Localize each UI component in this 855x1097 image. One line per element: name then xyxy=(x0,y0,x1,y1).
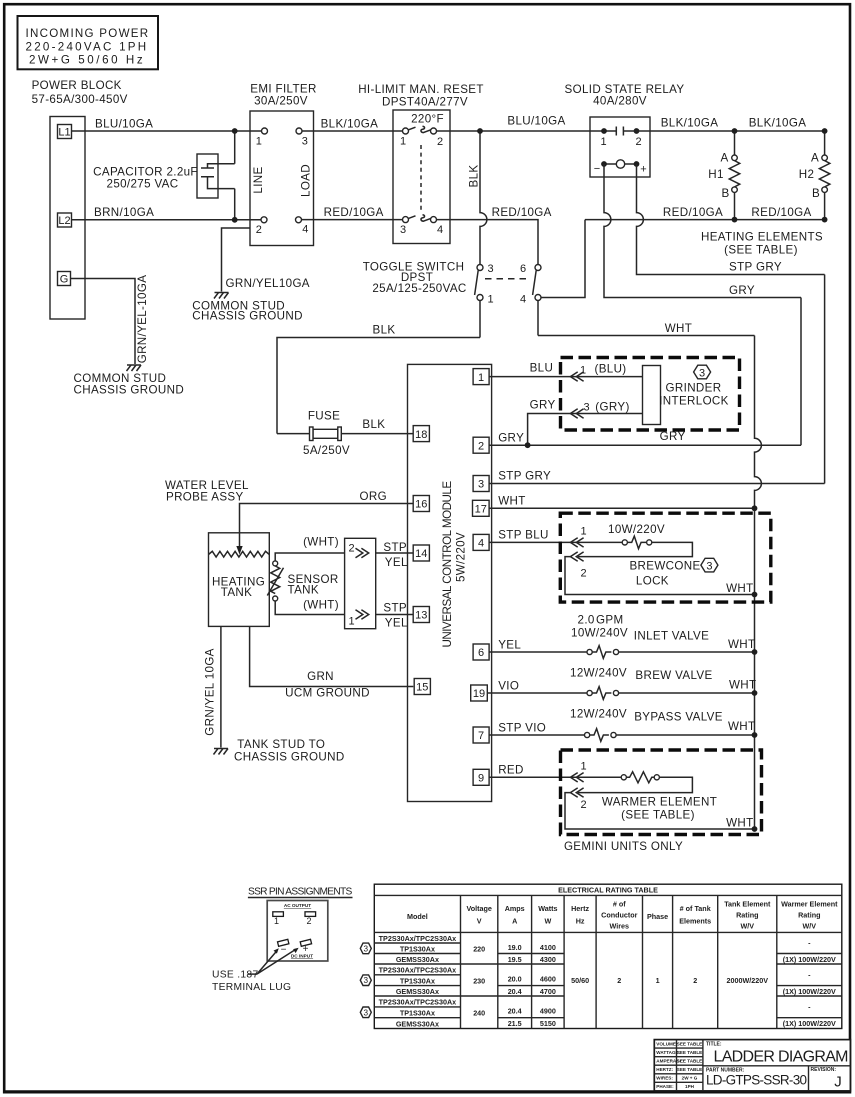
svg-text:GEMSS30Ax: GEMSS30Ax xyxy=(396,1019,439,1028)
svg-text:3: 3 xyxy=(583,402,589,414)
warmer element assembly xyxy=(561,750,762,835)
svg-text:3: 3 xyxy=(699,367,705,379)
UCM pin 3 xyxy=(473,476,489,492)
probe arrow into tank xyxy=(236,546,242,555)
toggle contact 4 xyxy=(535,295,541,301)
junction brewcone WHT bus xyxy=(752,592,758,598)
svg-text:# of Tank: # of Tank xyxy=(680,904,711,913)
svg-text:HI-LIMIT MAN. RESET: HI-LIMIT MAN. RESET xyxy=(358,83,484,96)
svg-text:240: 240 xyxy=(473,1009,485,1018)
terminal L1 xyxy=(58,125,72,139)
heating element H1 xyxy=(708,131,739,220)
svg-text:2: 2 xyxy=(693,976,697,985)
svg-text:(1X) 100W/220V: (1X) 100W/220V xyxy=(783,1019,836,1028)
wire RED hi-limit4 to toggle 6 xyxy=(437,206,552,265)
svg-text:2: 2 xyxy=(348,543,354,555)
svg-text:21.5: 21.5 xyxy=(508,1019,522,1028)
svg-text:1: 1 xyxy=(580,365,586,377)
SSR pin assignments box xyxy=(267,901,328,962)
svg-text:2: 2 xyxy=(580,568,586,580)
svg-text:PHASE:: PHASE: xyxy=(656,1084,674,1089)
svg-text:INCOMING POWER: INCOMING POWER xyxy=(26,27,149,40)
svg-text:BLU/10GA: BLU/10GA xyxy=(507,115,565,128)
svg-text:HERTZ:: HERTZ: xyxy=(656,1067,673,1072)
hexagon 3 table group 240 xyxy=(360,1007,371,1018)
svg-text:4: 4 xyxy=(520,294,526,306)
svg-text:19.5: 19.5 xyxy=(508,955,522,964)
svg-text:Amps: Amps xyxy=(505,904,525,913)
svg-text:WARMER ELEMENT: WARMER ELEMENT xyxy=(602,796,717,809)
svg-text:ORG: ORG xyxy=(360,490,387,503)
UCM pin 7 xyxy=(473,727,489,743)
svg-text:Warmer Element: Warmer Element xyxy=(781,900,838,909)
svg-text:VOLUME:: VOLUME: xyxy=(656,1042,678,1047)
junction grinder GRY xyxy=(525,442,531,448)
wire G to chassis ground xyxy=(71,279,136,365)
wire sensor to pin13 xyxy=(376,602,414,630)
wire RED EMI4 to hi-limit 3 xyxy=(302,206,406,220)
svg-text:1: 1 xyxy=(400,136,406,148)
svg-text:CHASSIS GROUND: CHASSIS GROUND xyxy=(192,310,303,323)
svg-text:250/275 VAC: 250/275 VAC xyxy=(107,178,179,191)
svg-text:W/V: W/V xyxy=(803,922,817,931)
svg-text:2.0 GPM: 2.0 GPM xyxy=(578,614,624,627)
hi-limit contact 2 xyxy=(431,128,437,134)
svg-text:(SEE TABLE): (SEE TABLE) xyxy=(724,244,798,257)
EMI pin 1 xyxy=(262,128,268,134)
svg-text:TITLE:: TITLE: xyxy=(706,1041,722,1047)
svg-text:WHT: WHT xyxy=(726,817,753,830)
svg-text:GRY: GRY xyxy=(498,432,524,445)
toggle switch S2 xyxy=(363,261,531,296)
svg-text:3: 3 xyxy=(302,136,308,148)
svg-text:Conductor: Conductor xyxy=(601,911,638,920)
svg-text:GRINDER: GRINDER xyxy=(666,382,722,395)
junction capacitor-BRN xyxy=(232,217,238,223)
svg-text:3: 3 xyxy=(400,224,406,236)
svg-text:(1X) 100W/220V: (1X) 100W/220V xyxy=(783,955,836,964)
wire tank stud to chassis ground xyxy=(220,626,222,747)
svg-text:6: 6 xyxy=(478,647,484,659)
hi-limit thermostat S1 xyxy=(358,83,484,244)
svg-text:BREW VALVE: BREW VALVE xyxy=(635,669,712,682)
hexagon 3 table group 220 xyxy=(360,943,371,954)
svg-text:2: 2 xyxy=(635,136,641,148)
wire pin7 STP VIO to bypass valve xyxy=(489,722,584,736)
svg-text:20.4: 20.4 xyxy=(508,1007,522,1016)
svg-text:A: A xyxy=(720,152,728,165)
svg-text:(WHT): (WHT) xyxy=(303,536,339,549)
svg-text:5A/250V: 5A/250V xyxy=(303,444,350,457)
svg-text:15: 15 xyxy=(416,682,428,694)
svg-text:BLK: BLK xyxy=(362,418,385,431)
wire BLU L1 to EMI pin1 xyxy=(72,118,265,132)
svg-text:1: 1 xyxy=(274,916,279,926)
grinder interlock assembly xyxy=(561,358,740,431)
terminal L2 xyxy=(58,213,72,227)
svg-text:USE .187: USE .187 xyxy=(212,970,258,981)
svg-text:SEE TABLE: SEE TABLE xyxy=(677,1042,702,1047)
wire EMI ground lead xyxy=(222,228,251,292)
svg-text:1: 1 xyxy=(478,372,484,384)
svg-text:REVISION:: REVISION: xyxy=(811,1067,837,1073)
bus STP GRY right xyxy=(824,275,826,484)
universal control module UCM xyxy=(408,364,492,801)
chassis ground symbol (EMI) xyxy=(214,293,229,299)
svg-text:2: 2 xyxy=(478,440,484,452)
svg-text:BLK/10GA: BLK/10GA xyxy=(661,117,719,130)
svg-text:7: 7 xyxy=(478,730,484,742)
EMI pin 2 xyxy=(261,217,267,223)
svg-text:10W/240V: 10W/240V xyxy=(571,627,628,640)
svg-text:H1: H1 xyxy=(708,168,724,181)
svg-text:HEATING ELEMENTS: HEATING ELEMENTS xyxy=(701,231,823,244)
svg-text:3: 3 xyxy=(706,560,712,572)
svg-text:INTERLOCK: INTERLOCK xyxy=(659,395,729,408)
svg-text:TANK STUD TO: TANK STUD TO xyxy=(237,738,325,751)
svg-text:GRY: GRY xyxy=(530,399,556,412)
svg-text:220: 220 xyxy=(473,945,485,954)
fuse F1 xyxy=(277,410,413,458)
SSR terminal dots xyxy=(601,128,607,134)
svg-text:3: 3 xyxy=(478,479,484,491)
svg-text:5150: 5150 xyxy=(540,1019,556,1028)
bus GRY right xyxy=(800,298,802,446)
svg-text:INLET VALVE: INLET VALVE xyxy=(634,630,709,643)
svg-text:GRN: GRN xyxy=(307,670,334,683)
svg-text:40A/280V: 40A/280V xyxy=(593,95,647,108)
svg-text:AC OUTPUT: AC OUTPUT xyxy=(284,903,311,908)
svg-text:GEMSS30Ax: GEMSS30Ax xyxy=(396,955,439,964)
bypass valve solenoid xyxy=(570,708,755,742)
svg-text:W: W xyxy=(545,917,552,926)
inlet valve solenoid xyxy=(571,614,755,659)
svg-text:30A/250V: 30A/250V xyxy=(254,95,308,108)
wire BLU hi-limit2 to SSR1 xyxy=(437,115,617,132)
svg-text:12W/240V: 12W/240V xyxy=(570,667,627,680)
svg-text:Tank Element: Tank Element xyxy=(724,900,771,909)
svg-text:5W/220V: 5W/220V xyxy=(455,532,468,582)
svg-text:1PH: 1PH xyxy=(685,1084,695,1089)
svg-text:3: 3 xyxy=(364,976,369,985)
svg-text:4900: 4900 xyxy=(540,1007,556,1016)
svg-text:A: A xyxy=(811,152,819,165)
svg-text:4100: 4100 xyxy=(540,943,556,952)
svg-text:GEMSS30Ax: GEMSS30Ax xyxy=(396,987,439,996)
svg-text:Rating: Rating xyxy=(736,911,758,920)
svg-text:TP1S30Ax: TP1S30Ax xyxy=(400,976,435,985)
junction warmer WHT bus xyxy=(752,826,758,832)
wire toggle1 down to BLK line xyxy=(479,301,481,338)
svg-text:Watts: Watts xyxy=(538,904,557,913)
svg-text:−: − xyxy=(594,163,600,175)
svg-text:BLU: BLU xyxy=(530,362,554,375)
svg-text:1: 1 xyxy=(656,976,660,985)
svg-text:J: J xyxy=(834,1073,842,1090)
toggle lever 6-4 xyxy=(533,270,537,295)
svg-text:FUSE: FUSE xyxy=(308,410,340,423)
svg-text:Hz: Hz xyxy=(576,917,585,926)
svg-text:CHASSIS GROUND: CHASSIS GROUND xyxy=(74,384,185,397)
toggle lever 3-1 xyxy=(475,270,479,295)
svg-text:WHT: WHT xyxy=(665,322,692,335)
brew valve solenoid xyxy=(570,667,756,700)
svg-text:20.0: 20.0 xyxy=(508,975,522,984)
svg-text:A: A xyxy=(512,917,517,926)
svg-text:(1X) 100W/220V: (1X) 100W/220V xyxy=(783,987,836,996)
SSR pin assignments heading xyxy=(248,887,353,898)
svg-text:VIO: VIO xyxy=(498,680,519,693)
svg-text:3: 3 xyxy=(364,1008,369,1017)
svg-text:2: 2 xyxy=(617,976,621,985)
svg-text:GRY: GRY xyxy=(729,284,755,297)
UCM pin 16 xyxy=(413,496,429,512)
svg-text:12W/240V: 12W/240V xyxy=(570,708,627,721)
wire pin9 RED to warmer element xyxy=(489,764,624,778)
hexagon 3 table group 230 xyxy=(360,975,371,986)
power block TB1 xyxy=(32,79,128,319)
svg-text:SSR PIN ASSIGNMENTS: SSR PIN ASSIGNMENTS xyxy=(248,887,353,898)
wire SSR plus to STP GRY (with hop) xyxy=(637,164,825,275)
wire BLK toggle1 to fuse xyxy=(277,324,480,434)
brewcone lock assembly xyxy=(560,513,771,602)
heating element H2 xyxy=(799,131,830,220)
svg-text:2: 2 xyxy=(306,916,311,926)
UCM pin 2 xyxy=(473,437,489,453)
svg-text:16: 16 xyxy=(415,499,427,511)
UCM pin 15 xyxy=(414,679,430,695)
svg-text:TANK: TANK xyxy=(221,586,252,599)
svg-text:2: 2 xyxy=(437,136,443,148)
svg-text:1: 1 xyxy=(600,136,606,148)
svg-text:STP GRY: STP GRY xyxy=(729,261,782,274)
wire toggle4 up to RED bus xyxy=(541,220,585,298)
svg-text:WHT: WHT xyxy=(726,582,753,595)
svg-text:TP1S30Ax: TP1S30Ax xyxy=(400,1009,435,1018)
wire toggle4 down to WHT line xyxy=(537,301,539,336)
label water level probe assy xyxy=(165,479,249,504)
label common stud chassis ground (left) xyxy=(74,372,185,397)
svg-text:220°F: 220°F xyxy=(411,113,444,126)
svg-text:V: V xyxy=(477,917,482,926)
svg-text:220-240VAC 1PH: 220-240VAC 1PH xyxy=(26,41,147,54)
svg-text:WHT: WHT xyxy=(728,720,755,733)
svg-text:(GRY): (GRY) xyxy=(595,401,629,414)
svg-text:BLK: BLK xyxy=(468,165,481,188)
svg-text:2: 2 xyxy=(580,799,586,811)
svg-text:19.0: 19.0 xyxy=(508,943,522,952)
svg-text:−: − xyxy=(281,945,287,956)
svg-text:1: 1 xyxy=(580,761,586,773)
svg-text:L1: L1 xyxy=(58,127,70,139)
svg-text:1: 1 xyxy=(580,526,586,538)
svg-text:POWER BLOCK: POWER BLOCK xyxy=(32,79,122,92)
svg-text:UCM GROUND: UCM GROUND xyxy=(285,687,370,700)
svg-text:19: 19 xyxy=(473,688,485,700)
EMI pin 3 xyxy=(296,128,302,134)
wire pin6 YEL to inlet valve xyxy=(489,639,587,653)
svg-text:STP GRY: STP GRY xyxy=(498,470,551,483)
svg-text:SEE TABLE: SEE TABLE xyxy=(677,1050,702,1055)
hexagon 3 grinder xyxy=(694,365,711,379)
svg-text:4600: 4600 xyxy=(540,975,556,984)
title block xyxy=(654,1040,850,1091)
wire BLK SSR2 to heating elements xyxy=(623,117,824,132)
svg-text:RED/10GA: RED/10GA xyxy=(324,206,384,219)
wire GRN UCM ground to pin15 xyxy=(250,626,414,699)
svg-text:BREWCONE: BREWCONE xyxy=(629,560,700,573)
svg-text:SEE TABLE: SEE TABLE xyxy=(677,1059,702,1064)
wire ORG probe to pin16 xyxy=(240,490,414,546)
svg-text:25A/125-250VAC: 25A/125-250VAC xyxy=(372,282,466,295)
svg-text:YEL: YEL xyxy=(385,556,408,569)
svg-text:14: 14 xyxy=(415,548,427,560)
wire pin19 VIO to brew valve xyxy=(487,680,587,694)
EMI pin 4 xyxy=(296,217,302,223)
svg-text:+: + xyxy=(640,164,646,176)
svg-text:LINE: LINE xyxy=(252,166,265,193)
svg-text:(BLU): (BLU) xyxy=(594,363,626,376)
svg-text:GRN/YEL 10GA: GRN/YEL 10GA xyxy=(204,648,217,736)
svg-text:1: 1 xyxy=(348,616,354,628)
junction brew WHT bus xyxy=(752,690,758,696)
junction bypass WHT bus xyxy=(752,732,758,738)
svg-text:TP1S30Ax: TP1S30Ax xyxy=(400,944,435,953)
svg-text:50/60: 50/60 xyxy=(571,976,589,985)
bus WHT right (with hops) xyxy=(755,336,762,830)
svg-text:13: 13 xyxy=(415,610,427,622)
UCM pin 6 xyxy=(473,644,489,660)
svg-text:Model: Model xyxy=(407,912,428,921)
UCM pin 1 xyxy=(473,369,489,385)
svg-text:TERMINAL LUG: TERMINAL LUG xyxy=(212,982,291,993)
junction BLU-BLK drop xyxy=(477,128,483,134)
wire BLK drop to toggle 3 (with hop) xyxy=(468,131,487,265)
svg-text:LD-GTPS-SSR-30: LD-GTPS-SSR-30 xyxy=(706,1072,807,1087)
svg-text:4: 4 xyxy=(302,224,308,236)
junction pin17 WHT bus xyxy=(752,505,758,511)
svg-text:2W + G: 2W + G xyxy=(682,1076,698,1081)
EMI filter xyxy=(250,83,317,246)
svg-text:1: 1 xyxy=(256,136,262,148)
svg-text:LADDER DIAGRAM: LADDER DIAGRAM xyxy=(714,1048,849,1065)
svg-text:(SEE TABLE): (SEE TABLE) xyxy=(621,809,695,822)
solid state relay SSR xyxy=(565,83,685,177)
svg-text:GRN/YEL-10GA: GRN/YEL-10GA xyxy=(136,275,149,364)
svg-text:57-65A/300-450V: 57-65A/300-450V xyxy=(32,93,128,106)
svg-text:GRY: GRY xyxy=(660,430,686,443)
svg-text:ELECTRICAL RATING TABLE: ELECTRICAL RATING TABLE xyxy=(558,886,658,895)
wire WHT to bus xyxy=(538,322,755,336)
tank sensor thermistor xyxy=(267,553,344,615)
svg-text:STP BLU: STP BLU xyxy=(498,529,549,542)
svg-text:BLK: BLK xyxy=(373,324,396,337)
svg-text:4: 4 xyxy=(437,224,443,236)
capacitor C1 xyxy=(93,131,235,220)
UCM pin 4 xyxy=(473,534,489,550)
svg-text:WIRES:: WIRES: xyxy=(656,1076,673,1081)
wire pin17 WHT to bus xyxy=(489,495,754,509)
svg-text:230: 230 xyxy=(473,977,485,986)
svg-text:L2: L2 xyxy=(58,215,70,227)
svg-text:G: G xyxy=(60,274,69,286)
svg-text:3: 3 xyxy=(364,944,369,953)
wire pin4 STP BLU to brewcone xyxy=(489,529,625,543)
svg-text:Elements: Elements xyxy=(679,917,711,926)
hi-limit contact 1 xyxy=(403,128,409,134)
label use .187 terminal lug xyxy=(212,970,291,994)
svg-text:4: 4 xyxy=(478,538,484,550)
UCM pin 17 xyxy=(473,500,490,516)
UCM pin 14 xyxy=(413,545,429,561)
hi-limit contact 3 xyxy=(403,217,409,223)
svg-text:Voltage: Voltage xyxy=(466,904,491,913)
wire BLK EMI3 to hi-limit 1 xyxy=(302,118,406,132)
toggle contact 1 xyxy=(477,295,483,301)
junction inlet WHT bus xyxy=(752,649,758,655)
wire sensor to pin14 xyxy=(376,541,414,569)
UCM pin 9 xyxy=(473,769,489,785)
svg-text:WHT: WHT xyxy=(729,679,756,692)
svg-text:TP2S30Ax/TPC2S30Ax: TP2S30Ax/TPC2S30Ax xyxy=(379,966,457,975)
junction capacitor-BLU xyxy=(232,128,238,134)
svg-text:WHT: WHT xyxy=(728,638,755,651)
svg-text:6: 6 xyxy=(520,263,526,275)
svg-text:4300: 4300 xyxy=(540,955,556,964)
svg-text:W/V: W/V xyxy=(741,922,755,931)
svg-text:STP: STP xyxy=(383,602,407,615)
svg-text:(WHT): (WHT) xyxy=(303,599,339,612)
hi-limit contact 4 xyxy=(431,217,437,223)
svg-text:4700: 4700 xyxy=(540,987,556,996)
wire pin2 GRY to bus xyxy=(489,432,801,446)
svg-text:RED/10GA: RED/10GA xyxy=(492,206,552,219)
wire pin1 to grinder interlock BLU xyxy=(489,362,642,377)
sensor connector xyxy=(345,538,376,628)
junction dots heating elements xyxy=(732,128,738,134)
svg-text:YEL: YEL xyxy=(385,617,408,630)
svg-text:2000W/220V: 2000W/220V xyxy=(727,976,769,985)
svg-text:DC INPUT: DC INPUT xyxy=(291,954,313,959)
svg-text:B: B xyxy=(721,187,729,200)
heating tank xyxy=(209,533,270,627)
svg-text:TP2S30Ax/TPC2S30Ax: TP2S30Ax/TPC2S30Ax xyxy=(379,934,457,943)
UCM pin 18 xyxy=(413,426,429,442)
hexagon 3 brewcone xyxy=(701,558,718,572)
svg-text:STP: STP xyxy=(383,541,407,554)
wire BRN L2 to EMI pin2 xyxy=(72,206,265,220)
svg-text:3: 3 xyxy=(487,263,493,275)
svg-text:DPST40A/277V: DPST40A/277V xyxy=(382,96,468,109)
svg-text:BRN/10GA: BRN/10GA xyxy=(94,206,154,219)
svg-text:Hertz: Hertz xyxy=(571,904,589,913)
label common stud chassis ground (EMI) xyxy=(192,300,303,323)
svg-text:LOAD: LOAD xyxy=(300,164,313,197)
svg-text:GEMINI UNITS ONLY: GEMINI UNITS ONLY xyxy=(564,840,683,853)
svg-text:10W/220V: 10W/220V xyxy=(608,523,665,536)
chassis ground symbol (power block) xyxy=(127,365,142,371)
terminal lug callout arrows xyxy=(248,948,299,974)
svg-text:Wires: Wires xyxy=(610,922,630,931)
svg-text:Phase: Phase xyxy=(647,912,668,921)
UCM pin 19 xyxy=(471,685,488,701)
svg-text:BLU/10GA: BLU/10GA xyxy=(95,118,153,131)
hi-limit lever bottom xyxy=(409,215,431,221)
svg-text:H2: H2 xyxy=(799,168,815,181)
svg-text:18: 18 xyxy=(415,429,427,441)
wire pin3 STP GRY to bus xyxy=(489,470,824,484)
toggle contact 3 xyxy=(477,265,483,271)
